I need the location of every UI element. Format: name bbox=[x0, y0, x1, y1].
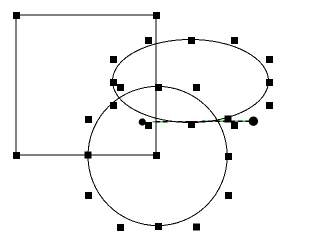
circle handle bottom-right bbox=[193, 224, 200, 231]
circle handle left-upper bbox=[85, 116, 92, 123]
line endpoint dot right bbox=[249, 117, 258, 126]
circle handle bottom-mid bbox=[155, 223, 162, 230]
ellipse handle bottom-mid bbox=[188, 121, 195, 128]
line L1 (selected, green with black dashes) bbox=[153, 120, 254, 123]
circle C1 bbox=[88, 86, 227, 225]
rectangle handle NW bbox=[13, 12, 20, 19]
line endpoint dot left bbox=[139, 118, 146, 125]
ellipse handle bottom-left bbox=[145, 122, 152, 129]
circle handle right-mid bbox=[225, 153, 232, 160]
ellipse handle left-lower bbox=[110, 102, 117, 109]
ellipse handle top-left bbox=[145, 37, 152, 44]
ellipse handle right-upper bbox=[266, 56, 273, 63]
ellipse handle top-mid bbox=[188, 37, 195, 44]
circle handle top-right bbox=[193, 84, 200, 91]
circle handle top-left bbox=[117, 84, 124, 91]
rectangle handle SW bbox=[13, 152, 20, 159]
ellipse handle right-mid bbox=[266, 79, 273, 86]
circle handle bottom-left bbox=[117, 224, 124, 231]
ellipse handle bottom-right bbox=[231, 122, 238, 129]
circle handle right-lower bbox=[225, 192, 232, 199]
circle handle top-mid bbox=[155, 84, 162, 91]
rectangle handle NE bbox=[153, 12, 160, 19]
ellipse E1 bbox=[113, 40, 269, 123]
ellipse handle left-mid bbox=[110, 79, 117, 86]
ellipse handle top-right bbox=[231, 37, 238, 44]
circle handle right-upper bbox=[225, 116, 232, 123]
circle handle left-lower bbox=[85, 192, 92, 199]
ellipse handle left-upper bbox=[110, 56, 117, 63]
ellipse handle right-lower bbox=[266, 102, 273, 109]
circle handle left-mid bbox=[85, 152, 92, 159]
rectangle handle SE bbox=[153, 152, 160, 159]
rectangle R1 bbox=[16, 15, 156, 155]
